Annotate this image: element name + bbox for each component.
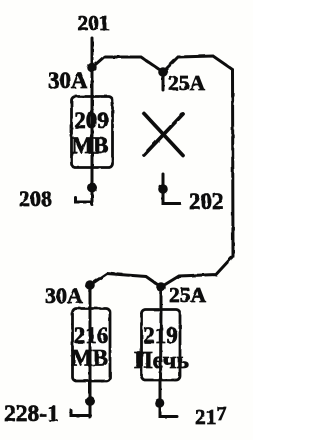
svg-text:228-1: 228-1 (4, 401, 59, 427)
svg-text:30A: 30A (48, 68, 88, 93)
wire: branch from top junction to 25A node (92, 57, 163, 72)
fuse rating label 25A (bottom) (169, 283, 207, 307)
wire: through fuse F2 (89, 309, 92, 381)
wire: bottom branch from 25A node to 30A node (90, 274, 161, 288)
node label 202 (189, 189, 224, 214)
terminal 208 hook (76, 198, 93, 203)
value label Pech (fuse F3) (134, 348, 189, 374)
wire: fuse F2 to terminal 228-1 (89, 381, 92, 418)
wire: through fuse F1 (91, 97, 94, 168)
junction dot at terminal 202 (158, 184, 168, 194)
terminal 228-1 hook (71, 411, 91, 416)
wire: bottom 30A node to fuse F2 (89, 285, 92, 309)
junction: bottom 25A node (156, 282, 166, 292)
wire: bottom 25A node to fuse F3 (160, 287, 163, 310)
wire: right bus from 25A node down to bottom 25A node (161, 56, 233, 287)
svg-text:209: 209 (74, 108, 109, 133)
fuse rating label 30A (top) (48, 68, 88, 93)
svg-text:МВ: МВ (71, 133, 108, 158)
node label 208 (19, 186, 52, 211)
junction: bottom 30A node (85, 280, 95, 290)
svg-text:25A: 25A (169, 283, 207, 307)
wire: fuse F1 to terminal 208 (91, 168, 94, 205)
svg-text:216: 216 (74, 323, 109, 348)
wire: through fuse F3 (159, 310, 163, 380)
svg-text:Печь: Печь (134, 348, 189, 374)
value label MB (fuse F2) (71, 346, 108, 371)
svg-text:201: 201 (77, 11, 109, 35)
svg-text:7: 7 (217, 403, 227, 425)
svg-text:202: 202 (189, 189, 224, 214)
fuse F2 box (216 MB) (73, 309, 111, 382)
terminal 202 hook (163, 189, 180, 204)
svg-text:219: 219 (143, 323, 178, 348)
junction dot at terminal 228-1 (85, 396, 95, 406)
value label 216 (74, 323, 109, 348)
value label 219 (143, 323, 178, 348)
wire: top junction down to fuse F1 (91, 68, 94, 97)
junction dot at terminal 208 (87, 183, 97, 193)
wire: stub below top 25A node (162, 72, 165, 90)
value label 209 (74, 108, 109, 133)
node label 217 (195, 403, 227, 429)
junction dot at terminal 217 (155, 398, 165, 408)
fuse F1 box (209 MB) (72, 97, 113, 168)
fuse rating label 30A (bottom) (45, 283, 83, 308)
svg-text:208: 208 (19, 186, 52, 211)
svg-text:30A: 30A (45, 283, 83, 308)
node label 228-1 (4, 401, 59, 427)
terminal 217 hook (160, 403, 177, 417)
value label MB (fuse F1) (71, 133, 108, 158)
fuse rating label 25A (top) (168, 71, 206, 95)
node label 201 (77, 11, 109, 35)
svg-text:МВ: МВ (71, 346, 108, 371)
svg-text:25A: 25A (168, 71, 206, 95)
wire: stub above terminal 202 (162, 174, 165, 190)
fuse F3 box (219) (142, 310, 181, 381)
X mark: crossed-out link to 202 (144, 114, 183, 156)
svg-text:21: 21 (195, 405, 217, 429)
junction: top 25A node (158, 67, 168, 77)
wire: fuse F3 to terminal 217 (159, 380, 162, 417)
junction: top node under 201 (87, 63, 97, 73)
wire: 201 feed into top junction (91, 38, 94, 68)
